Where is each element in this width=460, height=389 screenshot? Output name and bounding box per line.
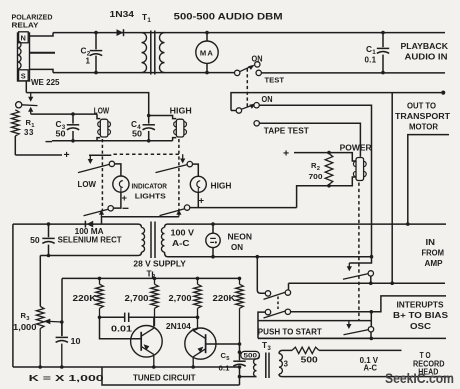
svg-text:2,700: 2,700 [125, 294, 150, 303]
svg-text:TUNED CIRCUIT: TUNED CIRCUIT [133, 374, 196, 383]
node motor feed junction [390, 281, 394, 285]
switch DPST pole2 right contact [285, 309, 290, 314]
node transport/amp rail junction [406, 222, 410, 226]
label HIGH (relay) [170, 106, 192, 115]
arrow LOW lamp switch [88, 155, 93, 164]
wire + feed [15, 154, 62, 156]
svg-text:+: + [199, 196, 205, 207]
label R1 33 [24, 118, 35, 137]
label 0.01 [111, 324, 133, 333]
svg-text:ON: ON [231, 243, 243, 252]
arrow HIGH lamp switch [180, 154, 185, 163]
diode selenium rectifier [85, 221, 93, 228]
svg-text:50: 50 [30, 236, 40, 245]
label R3 1,000 [13, 311, 37, 332]
label INDICATOR LIGHTS [132, 182, 168, 201]
svg-text:ON: ON [262, 95, 273, 104]
wire record head top right [319, 349, 402, 351]
label POWER [340, 143, 372, 152]
wire lamp common return [102, 217, 179, 224]
wire base coupling right [129, 316, 197, 318]
svg-text:AMP: AMP [425, 259, 443, 268]
wire S2 feed loop [231, 93, 441, 111]
switch HIGH upper contact [187, 161, 192, 166]
svg-text:LOW: LOW [94, 106, 110, 115]
transformer T1 primary [142, 33, 147, 73]
label ON (S1) [252, 54, 263, 63]
svg-text:TRANSPORT: TRANSPORT [395, 112, 450, 121]
capacitor C6 50uF [42, 222, 54, 257]
svg-text:OSC: OSC [410, 322, 431, 331]
switch S1 ON contact [255, 62, 260, 67]
wire top rail (playback hot) [53, 32, 445, 34]
label 500-500 AUDIO DBM [174, 12, 283, 22]
svg-text:0.1: 0.1 [365, 56, 377, 65]
node pole1 feed [255, 255, 259, 259]
wire Q1 base feed [100, 317, 142, 339]
linkage POWER relay dashed [358, 183, 360, 321]
wire LOW lamp bottom [114, 192, 121, 208]
label SELENIUM RECT [58, 236, 122, 245]
wire switch A feed [349, 257, 371, 263]
inductor 500 label box [241, 351, 260, 359]
label TUNED CIRCUIT [133, 374, 196, 383]
label 220K right [213, 294, 236, 303]
switch DPST pole1 blade [264, 292, 286, 299]
label LOW (relay) [94, 106, 110, 115]
svg-text:+: + [283, 148, 289, 160]
label 2,700 first [125, 294, 150, 303]
lamp LOW indicator [113, 176, 129, 192]
wire pole2 left lead [258, 312, 265, 338]
arrow switch A [347, 263, 352, 271]
svg-text:POWER: POWER [340, 143, 372, 152]
capacitor C5 [233, 350, 245, 378]
wire bias row [258, 337, 446, 339]
transformer T2 core [151, 222, 155, 259]
label 10 [71, 337, 82, 346]
relay coil LOW [97, 114, 110, 141]
wire cap50 to R3 [39, 256, 41, 307]
label POLARIZED RELAY [12, 12, 53, 29]
switch LOW upper contact [109, 161, 114, 166]
label PUSH TO START [258, 326, 322, 336]
svg-text:RELAY: RELAY [12, 20, 39, 29]
switch A contact [368, 271, 373, 276]
linkage DPST dashed [277, 297, 279, 310]
label 2,700 second [169, 294, 193, 303]
label IN FROM AMP [422, 238, 445, 268]
switch LOW lower contact [108, 206, 113, 211]
tuned circuit box [102, 367, 240, 385]
wire amp row [289, 282, 446, 284]
resistor 2700 first [151, 277, 159, 326]
inductor T3 primary winding [240, 355, 260, 376]
svg-text:28 V SUPPLY: 28 V SUPPLY [133, 259, 186, 268]
node interrupts junction [370, 310, 374, 314]
wire R1 bottom corner [14, 136, 16, 155]
svg-text:A-C: A-C [364, 364, 378, 373]
resistor R2 [325, 154, 333, 185]
node 100V rail end [370, 255, 374, 259]
svg-text:+: + [64, 149, 70, 161]
svg-text:PLAYBACK: PLAYBACK [401, 42, 449, 51]
label 1N34 [110, 9, 135, 19]
transformer T2 primary [138, 224, 145, 255]
switch LOW upper blade [78, 164, 109, 172]
switch S2 common contact [231, 108, 242, 113]
svg-text:WE 225: WE 225 [31, 78, 60, 87]
svg-text:PUSH TO START: PUSH TO START [258, 326, 322, 336]
label + (lamp feed) [64, 149, 70, 161]
wire base coupling left [100, 316, 125, 318]
switch DPST pole2 blade [264, 311, 286, 318]
wire bottom rail left segment [53, 72, 235, 74]
wire HIGH lamp bottom [197, 192, 199, 207]
wire lamp linkage bracket [89, 154, 111, 156]
wire selenium bottom [40, 255, 138, 257]
switch HIGH lower contact [184, 205, 189, 210]
node switch A junction [369, 281, 373, 285]
switch S1 blade with arrow [240, 65, 255, 72]
label LOW (lamp) [78, 180, 97, 189]
label T2 [147, 269, 156, 281]
node 220K/base junction [98, 316, 102, 320]
wire motor feed vertical [391, 93, 393, 284]
label + (power supply) [283, 148, 289, 160]
transistor Q1 2N104 [131, 317, 163, 367]
wire armature upper contact arrow [28, 93, 33, 102]
label 100 V A-C [171, 229, 195, 248]
lamp HIGH indicator [190, 176, 206, 192]
wire left rail [12, 224, 14, 367]
svg-text:INDICATOR: INDICATOR [132, 182, 168, 191]
svg-text:A-C: A-C [172, 239, 190, 248]
svg-text:2N104: 2N104 [166, 322, 192, 331]
switch HIGH upper blade [156, 165, 188, 173]
wire S2 ON to power switch column [259, 105, 371, 257]
svg-text:33: 33 [24, 128, 34, 137]
label 28 V SUPPLY [133, 259, 186, 268]
svg-text:LIGHTS: LIGHTS [135, 192, 166, 201]
wire Q2 base [206, 343, 240, 345]
diode D1 1N34 [117, 29, 124, 36]
wire LOW contact to lamp [115, 164, 121, 176]
arrow lamp common left [99, 210, 104, 217]
svg-text:HIGH: HIGH [211, 182, 232, 191]
wire record head bottom [282, 376, 450, 378]
svg-text:50: 50 [132, 130, 143, 139]
svg-text:220K: 220K [213, 294, 236, 303]
switch B blade [344, 330, 369, 335]
svg-text:B+ TO BIAS: B+ TO BIAS [393, 311, 448, 320]
svg-text:0.01: 0.01 [111, 324, 133, 333]
resistor R1 [12, 110, 20, 136]
svg-text:N: N [21, 34, 26, 43]
arrow switch B [346, 321, 351, 329]
switch S1 common contact [235, 70, 240, 75]
wire switch B feed [370, 312, 372, 327]
svg-text:10: 10 [71, 337, 82, 346]
label HIGH (lamp) [211, 182, 232, 191]
switch DPST pole1 right contact [285, 290, 290, 295]
transformer T3 core [266, 353, 269, 379]
linkage horizontal dashed [114, 153, 181, 155]
resistor 220K left [96, 277, 104, 318]
terminal dot end of motor wire [441, 91, 445, 95]
svg-text:1: 1 [86, 57, 91, 66]
label TO RECORD HEAD [413, 351, 445, 377]
svg-text:2,700: 2,700 [169, 294, 193, 303]
polarized relay K1 (WE 225) [18, 32, 30, 81]
node switch B junction [370, 337, 374, 341]
node Q2 collector junction [196, 316, 200, 320]
transformer T1 secondary [160, 33, 165, 73]
switch HIGH lower blade [160, 209, 185, 216]
switch S1 TEST contact [256, 70, 261, 75]
label K = X 1,000 [29, 373, 104, 383]
wire armature lower contact arrow [28, 107, 33, 114]
wire armature blade [22, 104, 38, 107]
wire C5 column [239, 344, 241, 385]
wire relay top contact to top rail [30, 33, 54, 36]
label WE 225 [31, 78, 60, 87]
svg-text:TEST: TEST [265, 75, 285, 84]
switch S2 ON contact [254, 103, 259, 108]
label T1 [142, 12, 151, 24]
label + (LOW lamp) [122, 193, 128, 204]
node R2 bottom [327, 184, 331, 188]
svg-text:220K: 220K [73, 294, 97, 303]
label 50 (filter cap) [30, 236, 40, 245]
label 100 MA [75, 227, 104, 236]
svg-text:SeekIC.com: SeekIC.com [385, 370, 454, 386]
wire Q1 collector to resistor [153, 316, 156, 318]
label 500 output [301, 356, 319, 365]
meter MA [196, 31, 218, 75]
svg-text:1N34: 1N34 [110, 9, 135, 19]
wire switch A to amp wire [370, 276, 372, 283]
switch A blade [343, 274, 368, 279]
terminal armature pivot [16, 102, 22, 108]
resistor R3 [36, 306, 44, 369]
wiper R3 arrow [44, 319, 64, 325]
label 3 (winding) [284, 359, 289, 368]
node R2 top [327, 151, 331, 155]
svg-text:SELENIUM RECT: SELENIUM RECT [58, 236, 122, 245]
wire T2 center tap stub [152, 272, 154, 279]
svg-text:K = X 1,000: K = X 1,000 [29, 373, 104, 383]
svg-text:AUDIO IN: AUDIO IN [405, 53, 448, 62]
node Q1 emitter [152, 365, 156, 369]
svg-text:700: 700 [309, 172, 323, 181]
transistor Q2 2N104 [185, 317, 216, 367]
wire relay bottom contact to bottom rail [30, 69, 54, 72]
label C1 0.1 [365, 44, 377, 65]
wire record head top [282, 349, 292, 351]
wire transport motor bracket [408, 135, 449, 225]
switch DPST pole1 left contact [265, 291, 270, 296]
label OUT TO TRANSPORT MOTOR [395, 102, 450, 132]
label ON (S2) [262, 95, 273, 104]
node Q2 emitter [191, 365, 195, 369]
capacitor C3 [67, 112, 79, 142]
label R2 700 [309, 161, 323, 181]
wire R2 bottom loop [297, 177, 356, 208]
lamp NEON [206, 222, 220, 258]
resistor 2700 second [194, 277, 202, 318]
label TEST [265, 75, 285, 84]
linkage HIGH relay dashed [178, 139, 180, 211]
linkage S1-S2 dashed [246, 69, 248, 108]
relay coil HIGH [149, 116, 187, 141]
capacitor C1 [377, 31, 389, 75]
label 0.1 V A-C [360, 356, 379, 373]
switch S2 blade with arrow [241, 103, 256, 109]
switch DPST pole2 left contact [265, 309, 270, 314]
wire switch B stub [370, 332, 372, 338]
svg-text:S: S [21, 72, 26, 81]
svg-text:ON: ON [252, 54, 263, 63]
svg-text:TAPE TEST: TAPE TEST [264, 127, 309, 136]
switch B contact [368, 327, 373, 332]
linkage LOW relay dashed [101, 139, 103, 211]
svg-text:MA: MA [200, 48, 214, 57]
watermark SeekIC.com [385, 370, 454, 386]
resistor 220K right [236, 277, 244, 344]
wire interrupts row [291, 296, 446, 312]
wire 28V drop to wiper [61, 278, 63, 335]
svg-text:100 V: 100 V [171, 229, 195, 238]
capacitor C2 [90, 31, 102, 75]
transformer T3 secondary [279, 350, 282, 376]
label C4 50 [131, 119, 143, 139]
wire 100V rail [168, 256, 372, 258]
label T3 [262, 340, 271, 352]
label + (HIGH lamp) [199, 196, 205, 207]
svg-text:LOW: LOW [78, 180, 97, 189]
transformer T1 core [151, 31, 155, 75]
svg-text:FROM: FROM [422, 249, 445, 258]
relay coil POWER [353, 158, 366, 181]
label 220K left [73, 294, 97, 303]
wire armature to C3/LOW [31, 113, 97, 115]
label NEON ON [228, 233, 253, 253]
resistor 500 output [292, 347, 319, 353]
svg-text:HIGH: HIGH [170, 106, 192, 115]
svg-text:+: + [122, 193, 128, 204]
wire tape test to power relay [259, 123, 360, 157]
label PLAYBACK AUDIO IN [401, 42, 449, 62]
svg-text:IN: IN [426, 238, 436, 247]
label C2 1 [81, 46, 91, 66]
wire DPST pole1 feed [257, 257, 265, 294]
svg-text:1,000: 1,000 [13, 323, 37, 332]
wire amp rail [167, 223, 446, 225]
svg-text:INTERUPTS: INTERUPTS [397, 300, 444, 309]
wire HIGH lamp row to R2 loop [190, 207, 297, 209]
svg-text:50: 50 [56, 130, 67, 139]
wire relay middle stub [30, 52, 56, 54]
wire pole1 to amp row [288, 283, 290, 290]
label - (LOW lamp) [123, 207, 129, 209]
wire HIGH contact to lamp [193, 164, 199, 176]
wire 28V supply rail [62, 277, 240, 279]
label - (C3 polarity) [46, 141, 53, 143]
arrow lamp common right [176, 210, 181, 217]
wire selenium rail [13, 223, 138, 225]
wire bottom rail right segment (TEST to playback) [261, 72, 445, 74]
label C3 50 [56, 119, 67, 139]
svg-text:500-500 AUDIO DBM: 500-500 AUDIO DBM [174, 12, 283, 22]
svg-text:3: 3 [284, 359, 289, 368]
svg-text:500: 500 [301, 356, 319, 365]
svg-text:MOTOR: MOTOR [409, 123, 438, 132]
capacitor 10uF [56, 322, 68, 369]
transformer T2 secondary [161, 224, 167, 257]
label TAPE TEST [264, 127, 309, 136]
wire lamp-row bottom rail [52, 140, 173, 142]
wire S-feed to C4 (upper) [26, 93, 148, 116]
capacitor C4 [143, 114, 155, 143]
wire ground rail [13, 366, 240, 368]
svg-text:0.1: 0.1 [219, 363, 231, 372]
label 2N104 [166, 322, 192, 331]
wire R2 top [294, 153, 356, 161]
switch LOW lower blade [84, 209, 109, 216]
node Q2 base-220K junction [238, 342, 242, 346]
terminal TAPE TEST [254, 121, 259, 126]
wire relay S-box to LOW/HIGH feed [25, 81, 27, 93]
capacitor C 0.01 [125, 313, 129, 322]
label INTERUPTS B+ TO BIAS OSC [393, 300, 448, 331]
label C5 0.1 [219, 351, 231, 372]
svg-text:OUT TO: OUT TO [407, 102, 436, 111]
svg-text:NEON: NEON [228, 233, 253, 242]
push to start box [258, 321, 371, 339]
